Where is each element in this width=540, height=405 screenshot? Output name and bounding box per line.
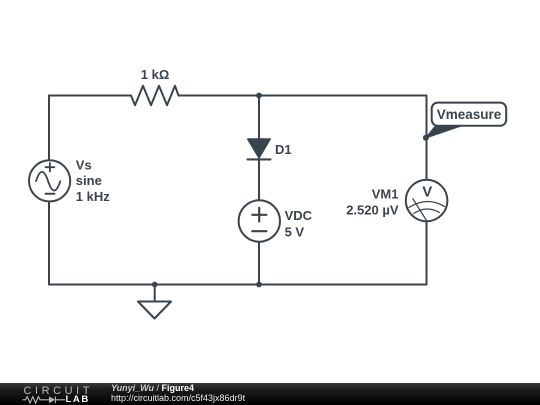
wire middle branch upper [258,96,260,140]
wire top-left horizontal [49,95,131,97]
wire left vertical lower [48,202,50,285]
wire VDC to bottom [258,242,260,285]
svg-text:VM1: VM1 [372,186,399,201]
svg-text:V: V [422,184,432,201]
footer bar [0,383,540,405]
wire diode to VDC [258,160,260,201]
callout Vmeasure [426,103,506,138]
label Vs sine 1 kHz [76,157,110,203]
wire bottom horizontal [49,284,427,286]
voltage source VDC [239,200,280,241]
footer url text [111,393,245,403]
svg-text:5 V: 5 V [285,224,305,239]
node junction ground [152,282,158,288]
svg-text:1 kΩ: 1 kΩ [141,67,170,82]
svg-text:sine: sine [76,173,102,188]
wire left vertical upper [48,96,50,161]
CircuitLab logo glyph resistor+diode [22,395,68,405]
svg-text:VDC: VDC [285,208,313,223]
svg-text:D1: D1 [275,142,292,157]
diode D1 [248,139,271,159]
node junction top (diode branch) [256,93,262,99]
CircuitLab logo text CIRCUIT [24,386,93,397]
svg-text:Vs: Vs [76,157,92,172]
CircuitLab logo text LAB [66,395,90,405]
node Vmeasure probe [423,135,429,141]
svg-text:2.520 µV: 2.520 µV [346,203,399,218]
wire top-right horizontal [179,95,427,97]
wire right vertical lower [426,221,428,284]
ground [138,302,171,319]
voltmeter VM1 [406,180,448,222]
label VM1 2.520 µV [346,186,399,217]
svg-text:1 kHz: 1 kHz [76,189,110,204]
wire ground stub [154,285,156,302]
wire right vertical upper [426,96,428,180]
svg-text:Vmeasure: Vmeasure [437,107,502,122]
resistor 1 kΩ [131,86,179,105]
voltage source Vs [29,160,70,201]
footer attribution text [111,383,194,393]
label VDC 5 V [285,208,313,240]
node junction bottom (VDC branch) [256,282,262,288]
